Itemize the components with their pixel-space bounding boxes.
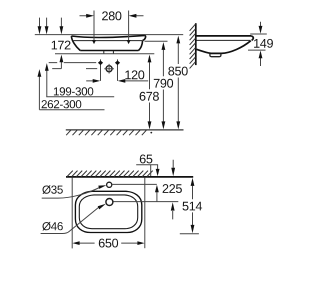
dim 172 up arrow [60, 55, 64, 69]
dim 678 vertical [148, 55, 152, 130]
tap-hole centerline upper [49, 62, 96, 64]
dim 225 arrows [171, 160, 175, 220]
label 850 [168, 67, 187, 76]
tap-hole centerline lower [52, 68, 97, 70]
650 left extension [71, 177, 73, 248]
front rim inner line [74, 40, 143, 42]
plan drain circle [106, 199, 113, 206]
label 149 [254, 39, 273, 48]
side view wall hatching [190, 24, 196, 68]
dim 280 lines [80, 11, 144, 41]
plan wall hatching [67, 171, 153, 177]
label 120 [125, 70, 144, 79]
center tap hole symbol [104, 64, 114, 74]
floor line [66, 129, 184, 131]
dim 514 vertical [191, 178, 195, 233]
dim 149 reference lines [248, 34, 267, 50]
plan wall line [66, 176, 193, 178]
label 280 [102, 11, 121, 20]
label 225 [163, 184, 182, 193]
tap hole diamond right [115, 59, 120, 81]
label 199-300 [54, 87, 93, 95]
dim 790 vertical [162, 42, 166, 129]
drain line right [114, 201, 179, 203]
label O46 [42, 222, 62, 231]
dim 650 line [72, 241, 144, 245]
plan basin outer outline [75, 191, 141, 232]
dim 850 vertical [176, 36, 180, 130]
side view wall line [195, 23, 197, 65]
plan tap hole circle [107, 182, 112, 187]
dim 149 arrows [259, 22, 263, 66]
leader O35 [42, 185, 107, 198]
label O35 [42, 185, 62, 194]
label 678 [140, 92, 159, 101]
514 bottom reference line [180, 233, 199, 235]
tap hole line right [112, 183, 157, 185]
mid up arrow at tap line [155, 185, 159, 202]
leader O46 [41, 204, 106, 234]
dim 262-300 arrow [38, 69, 42, 110]
790 reference line [145, 40, 168, 42]
floor hatching [66, 130, 152, 135]
top-left trio of down arrows onto datum [38, 18, 64, 35]
washbasin front view outline [71, 35, 145, 50]
tap hole diamond left [98, 59, 103, 81]
dim 280 arrowheads [86, 14, 136, 44]
side drain bump [210, 54, 221, 57]
leader line 199-300 [46, 96, 114, 98]
dim 120 [86, 79, 148, 83]
label 262-300 [42, 100, 82, 108]
label 65 [140, 155, 153, 164]
dim 199-300 arrow [45, 63, 49, 97]
front drain box [104, 51, 114, 54]
side rim bottom line [197, 39, 251, 41]
bottom reference line (678/172 datum) [55, 53, 154, 55]
leader line 262-300 [39, 109, 104, 111]
label 790 [154, 79, 173, 88]
top reference line (850/172 datum) [35, 34, 183, 36]
dim 65 leader and down arrow [136, 165, 159, 177]
plan basin inner outline [79, 195, 137, 229]
label 650 [99, 239, 118, 248]
650 right extension [144, 177, 146, 248]
label 172 [52, 41, 71, 50]
label 514 [183, 202, 203, 211]
side view basin profile [197, 36, 254, 54]
